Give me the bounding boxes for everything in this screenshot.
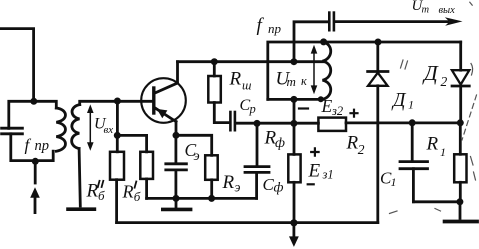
svg-text:R: R xyxy=(229,69,242,90)
svg-text:1: 1 xyxy=(440,145,446,159)
svg-text:вх: вх xyxy=(104,124,114,136)
label minus E_z1 xyxy=(308,183,314,185)
label Rf xyxy=(264,128,286,152)
wire base divider vertical xyxy=(116,101,119,135)
node coil top junction xyxy=(320,38,327,45)
supply arrow down xyxy=(289,223,299,247)
label D1 xyxy=(391,90,414,112)
output arrow U_t_vyh xyxy=(335,17,463,26)
svg-text:f: f xyxy=(25,136,32,155)
wire antenna input top-left xyxy=(0,29,34,102)
inductor secondary winding coil xyxy=(72,105,80,149)
ground right xyxy=(445,202,477,222)
svg-text:Д: Д xyxy=(422,61,439,85)
wire input tank bottom xyxy=(12,151,53,160)
label D2 xyxy=(422,61,448,89)
battery E_z2 xyxy=(318,118,346,131)
svg-text:вых: вых xyxy=(439,5,456,16)
voltage arrow U_tk xyxy=(311,45,318,94)
diode D1 xyxy=(368,42,388,223)
svg-text:э: э xyxy=(194,149,200,164)
node C1 junction xyxy=(409,119,416,126)
label plus E_z1 xyxy=(311,148,318,155)
node tank bottom junction xyxy=(290,96,297,103)
wire supply vertical mid xyxy=(293,99,296,154)
resistor Rb'' xyxy=(110,135,124,222)
svg-text:E: E xyxy=(321,96,333,116)
label E_z2 xyxy=(321,96,344,118)
svg-text:R: R xyxy=(346,133,359,154)
node Cf junction xyxy=(254,120,261,127)
node coil bottom junction xyxy=(318,96,324,102)
label Rsh xyxy=(229,69,252,93)
label R1 xyxy=(426,134,447,160)
svg-text:2: 2 xyxy=(358,142,365,157)
svg-text:т: т xyxy=(422,5,430,16)
svg-text:R: R xyxy=(426,134,439,155)
transistor Q1 xyxy=(141,78,186,123)
capacitor Cp coupling xyxy=(230,112,318,130)
svg-text:ш: ш xyxy=(242,79,251,93)
wire collector up xyxy=(176,62,179,83)
label Cp xyxy=(240,97,256,116)
ground secondary xyxy=(68,207,94,211)
wire ground rail xyxy=(147,197,257,200)
node ground junction xyxy=(173,195,180,202)
node A input tank top junction xyxy=(30,98,37,105)
resistor Rb' xyxy=(140,152,153,199)
output tank box xyxy=(268,42,461,99)
svg-text:1: 1 xyxy=(408,98,414,112)
svg-text:б: б xyxy=(134,189,141,204)
label f_pr output xyxy=(257,15,282,36)
ground center xyxy=(163,198,191,209)
node D1 top junction xyxy=(375,39,382,46)
node B input tank bottom junction xyxy=(32,158,39,165)
svg-text:R: R xyxy=(122,182,134,202)
resistor R1 xyxy=(454,123,466,202)
wire supply to right xyxy=(346,122,460,125)
battery E_z1 xyxy=(288,154,300,182)
label Rb' xyxy=(122,182,141,205)
node emitter junction xyxy=(173,132,180,139)
svg-text:пр: пр xyxy=(35,138,50,154)
node Rsh junction xyxy=(211,58,218,65)
capacitor input tank C xyxy=(2,128,23,160)
wire secondary bottom to ground xyxy=(79,149,80,206)
svg-text:Д: Д xyxy=(391,90,407,111)
wire emitter down xyxy=(175,122,178,136)
svg-text:э: э xyxy=(235,180,241,195)
capacitor Ce xyxy=(166,135,187,198)
capacitor C1 xyxy=(400,123,460,202)
svg-text:з1: з1 xyxy=(322,168,334,182)
label Rb'' xyxy=(86,181,106,204)
resistor Re xyxy=(176,135,218,198)
svg-text:R: R xyxy=(222,172,235,193)
label E_z1 xyxy=(308,161,334,182)
label R2 xyxy=(346,133,365,158)
wire E_z1 to bottom rail xyxy=(293,182,296,222)
input signal arrow up xyxy=(30,187,40,212)
capacitor output coupling xyxy=(329,13,334,31)
node supply junction xyxy=(290,120,297,127)
voltage arrow U_vx xyxy=(87,104,94,150)
svg-text:б: б xyxy=(98,188,105,203)
node Re bottom junction xyxy=(208,195,215,202)
node divider junction xyxy=(114,132,121,139)
resistor Rsh xyxy=(208,62,230,123)
diode D2 xyxy=(452,42,469,123)
node collector tap junction xyxy=(290,58,297,65)
inductor output tank coil xyxy=(323,42,331,99)
wire secondary top to base xyxy=(80,101,153,104)
svg-text:R: R xyxy=(86,181,99,202)
svg-text:ф: ф xyxy=(275,136,285,151)
svg-text:т: т xyxy=(287,74,296,89)
label Re xyxy=(222,172,241,195)
svg-text:з2: з2 xyxy=(331,104,343,118)
label U_t_vyh xyxy=(412,0,456,16)
node R1 bottom junction xyxy=(456,198,463,205)
svg-text:2: 2 xyxy=(441,74,448,89)
wire input stub down xyxy=(34,161,37,183)
inductor L input tank coil xyxy=(56,108,65,151)
wire bottom rail xyxy=(117,221,378,224)
svg-text:f: f xyxy=(257,15,265,36)
label Ce xyxy=(185,140,200,164)
svg-text:р: р xyxy=(249,102,256,116)
svg-text:E: E xyxy=(308,161,321,182)
label minus E_z2 xyxy=(299,107,308,109)
wire divider to Rb1 xyxy=(117,135,146,151)
svg-text:ф: ф xyxy=(274,181,284,196)
label C1 xyxy=(380,169,397,190)
label Cf xyxy=(263,175,284,196)
label U_vx xyxy=(94,116,113,136)
label U_tk xyxy=(276,69,308,90)
label f_pr input xyxy=(25,136,50,155)
wire tank to output cap xyxy=(294,22,329,62)
label plus E_z2 xyxy=(351,110,358,117)
capacitor Cf xyxy=(245,123,269,198)
svg-text:пр: пр xyxy=(268,21,282,36)
node bottom rail junction xyxy=(290,219,297,226)
svg-text:к: к xyxy=(301,74,307,88)
node R1 junction xyxy=(457,119,464,126)
node base top junction xyxy=(114,98,121,105)
wire collector rail xyxy=(178,60,325,63)
wire input tank top xyxy=(9,101,57,128)
svg-text:1: 1 xyxy=(391,175,397,189)
